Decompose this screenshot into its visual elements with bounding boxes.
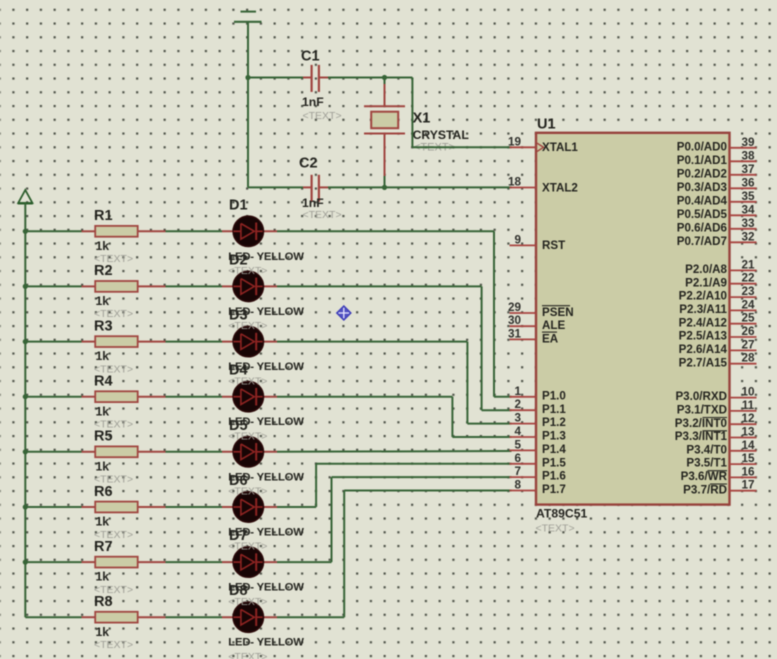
svg-text:D2: D2 <box>229 252 248 268</box>
svg-text:1k: 1k <box>96 294 110 308</box>
svg-text:C1: C1 <box>301 49 320 65</box>
svg-text:5: 5 <box>514 438 521 451</box>
svg-text:<TEXT>: <TEXT> <box>303 209 342 221</box>
svg-text:1k: 1k <box>96 459 110 473</box>
svg-text:27: 27 <box>741 338 754 351</box>
svg-text:33: 33 <box>741 217 755 230</box>
svg-text:7: 7 <box>514 465 521 478</box>
svg-text:8: 8 <box>514 479 521 492</box>
svg-text:9: 9 <box>514 233 521 246</box>
svg-text:36: 36 <box>741 176 755 189</box>
svg-text:D3: D3 <box>229 308 248 324</box>
svg-text:P3.2/INT0: P3.2/INT0 <box>675 417 727 430</box>
svg-text:P1.5: P1.5 <box>542 456 566 469</box>
svg-text:22: 22 <box>741 272 755 285</box>
svg-text:P2.7/A15: P2.7/A15 <box>679 356 728 369</box>
svg-text:P1.0: P1.0 <box>542 389 566 402</box>
svg-text:24: 24 <box>741 298 755 311</box>
svg-text:35: 35 <box>741 190 755 203</box>
svg-text:U1: U1 <box>537 116 556 132</box>
svg-text:P0.3/AD3: P0.3/AD3 <box>677 181 728 194</box>
svg-text:1k: 1k <box>96 404 110 418</box>
svg-text:P2.2/A10: P2.2/A10 <box>679 290 727 303</box>
svg-text:R3: R3 <box>94 318 113 334</box>
svg-text:D7: D7 <box>229 528 248 544</box>
svg-text:X1: X1 <box>413 110 431 126</box>
svg-text:<TEXT>: <TEXT> <box>228 651 267 659</box>
svg-text:34: 34 <box>741 203 755 216</box>
svg-text:P3.6/WR: P3.6/WR <box>681 470 728 483</box>
svg-text:P3.1/TXD: P3.1/TXD <box>677 404 727 417</box>
svg-text:29: 29 <box>508 301 522 314</box>
svg-text:P1.1: P1.1 <box>542 403 566 416</box>
svg-text:16: 16 <box>741 465 755 478</box>
svg-text:P1.2: P1.2 <box>542 416 566 429</box>
svg-text:P0.0/AD0: P0.0/AD0 <box>677 140 727 153</box>
svg-text:P2.5/A13: P2.5/A13 <box>679 330 728 343</box>
svg-text:25: 25 <box>741 312 755 325</box>
svg-text:3: 3 <box>514 412 521 425</box>
svg-text:38: 38 <box>741 149 755 162</box>
svg-text:P1.4: P1.4 <box>542 443 566 456</box>
svg-text:P1.7: P1.7 <box>542 483 566 496</box>
svg-text:P0.6/AD6: P0.6/AD6 <box>677 221 728 234</box>
svg-text:14: 14 <box>741 439 755 452</box>
svg-text:PSEN: PSEN <box>542 306 574 319</box>
svg-text:39: 39 <box>741 136 755 149</box>
svg-text:R2: R2 <box>94 263 113 279</box>
svg-text:P3.7/RD: P3.7/RD <box>683 483 727 496</box>
svg-text:P2.0/A8: P2.0/A8 <box>685 263 727 276</box>
svg-text:P0.4/AD4: P0.4/AD4 <box>677 194 728 207</box>
svg-text:P0.5/AD5: P0.5/AD5 <box>677 208 728 221</box>
svg-text:1k: 1k <box>96 515 110 529</box>
svg-text:6: 6 <box>514 452 521 465</box>
svg-text:15: 15 <box>741 452 755 465</box>
svg-text:4: 4 <box>514 425 521 438</box>
svg-text:<TEXT>: <TEXT> <box>303 110 342 122</box>
svg-text:C2: C2 <box>299 156 318 172</box>
svg-text:D1: D1 <box>229 197 248 213</box>
svg-text:R4: R4 <box>94 374 113 390</box>
svg-text:17: 17 <box>741 479 754 492</box>
svg-text:RST: RST <box>542 239 565 252</box>
svg-text:P3.4/T0: P3.4/T0 <box>686 443 727 456</box>
svg-text:<TEXT>: <TEXT> <box>94 639 133 651</box>
svg-text:1k: 1k <box>96 349 110 363</box>
svg-text:R8: R8 <box>94 594 113 610</box>
svg-text:12: 12 <box>741 412 755 425</box>
svg-text:28: 28 <box>741 352 755 365</box>
svg-text:1: 1 <box>514 385 521 398</box>
svg-text:R6: R6 <box>94 484 113 500</box>
svg-text:1k: 1k <box>96 570 110 584</box>
svg-text:P2.1/A9: P2.1/A9 <box>685 276 727 289</box>
svg-text:37: 37 <box>741 163 754 176</box>
svg-text:21: 21 <box>741 258 755 271</box>
svg-text:P0.2/AD2: P0.2/AD2 <box>677 167 727 180</box>
svg-text:P3.0/RXD: P3.0/RXD <box>675 390 727 403</box>
svg-text:P2.4/A12: P2.4/A12 <box>679 316 727 329</box>
svg-text:1k: 1k <box>96 625 110 639</box>
svg-text:P0.1/AD1: P0.1/AD1 <box>677 154 728 167</box>
svg-text:1nF: 1nF <box>302 196 324 210</box>
svg-text:1nF: 1nF <box>302 95 324 109</box>
svg-text:CRYSTAL: CRYSTAL <box>413 128 470 142</box>
svg-text:XTAL2: XTAL2 <box>542 181 578 194</box>
svg-text:P1.3: P1.3 <box>542 430 566 443</box>
svg-text:13: 13 <box>741 426 755 439</box>
svg-text:<TEXT>: <TEXT> <box>536 523 575 535</box>
svg-text:26: 26 <box>741 325 755 338</box>
svg-text:2: 2 <box>514 398 521 411</box>
svg-text:23: 23 <box>741 285 755 298</box>
svg-text:P2.6/A14: P2.6/A14 <box>679 343 728 356</box>
svg-text:30: 30 <box>508 314 522 327</box>
svg-text:D6: D6 <box>229 473 248 489</box>
svg-text:D4: D4 <box>229 363 248 379</box>
svg-text:31: 31 <box>508 327 522 340</box>
svg-text:11: 11 <box>742 399 755 412</box>
svg-text:R7: R7 <box>94 539 113 555</box>
svg-text:D5: D5 <box>229 418 248 434</box>
svg-text:XTAL1: XTAL1 <box>542 141 578 154</box>
svg-text:P3.3/INT1: P3.3/INT1 <box>675 430 728 443</box>
svg-text:1k: 1k <box>96 239 110 253</box>
svg-text:P0.7/AD7: P0.7/AD7 <box>677 235 727 248</box>
svg-text:AT89C51: AT89C51 <box>536 507 587 521</box>
svg-text:P3.5/T1: P3.5/T1 <box>686 457 727 470</box>
svg-text:EA: EA <box>542 332 559 345</box>
svg-text:10: 10 <box>741 386 755 399</box>
svg-text:R5: R5 <box>94 429 113 445</box>
svg-text:P2.3/A11: P2.3/A11 <box>679 303 727 316</box>
svg-text:19: 19 <box>508 135 522 148</box>
svg-text:P1.6: P1.6 <box>542 470 566 483</box>
svg-text:LED- YELLOW: LED- YELLOW <box>228 637 304 649</box>
svg-text:R1: R1 <box>94 208 113 224</box>
svg-text:32: 32 <box>741 230 755 243</box>
svg-text:D8: D8 <box>229 583 248 599</box>
svg-text:ALE: ALE <box>542 319 565 332</box>
svg-text:18: 18 <box>508 176 522 189</box>
